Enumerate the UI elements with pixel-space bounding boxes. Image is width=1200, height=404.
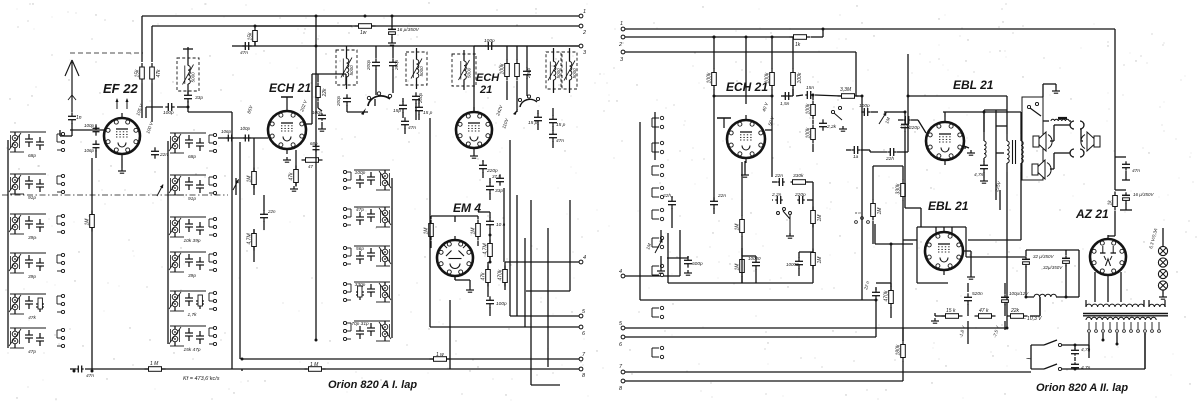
svg-text:91p: 91p	[188, 196, 196, 202]
svg-text:39p: 39p	[28, 235, 36, 241]
svg-text:5000: 5000	[419, 66, 424, 77]
resistor 1w	[355, 24, 376, 36]
mw coil unit 2	[343, 207, 391, 227]
svg-text:1 M: 1 M	[310, 362, 319, 368]
speaker 1	[1033, 132, 1052, 151]
switch contact 7	[652, 264, 664, 276]
capacitor 200p t2	[343, 94, 351, 105]
wire to terminal 4	[505, 261, 579, 263]
wire 32u wires	[1026, 250, 1079, 297]
terminal 7 (right page)	[619, 364, 625, 374]
svg-text:1k: 1k	[795, 42, 801, 48]
svg-text:5000: 5000	[572, 68, 577, 79]
terminal 3 (right page)	[620, 50, 625, 63]
capacitor 47n osc2	[549, 130, 557, 141]
svg-text:100p: 100p	[84, 123, 95, 128]
mains switch a	[1031, 340, 1062, 347]
mains switch b	[1031, 364, 1062, 371]
capacitor 15n a	[805, 91, 812, 99]
resistor 4,7M	[483, 240, 493, 261]
terminal 8 (right page)	[619, 379, 625, 392]
svg-text:2,2k: 2,2k	[826, 124, 837, 130]
wire plate ECH1	[306, 74, 346, 124]
svg-text:33p: 33p	[495, 188, 503, 194]
wire ech2 bottom	[483, 160, 490, 200]
wire bottom agc	[91, 342, 93, 369]
capacitor 2,2n e	[775, 196, 782, 204]
capacitor 100p grid	[165, 103, 174, 111]
transformer taps	[1088, 322, 1161, 332]
wire bottom rail 2	[242, 369, 452, 371]
wire top bus 1 (left page)	[142, 15, 579, 17]
switch contact 8	[652, 306, 664, 318]
svg-text:100p: 100p	[355, 170, 366, 176]
wire top bus 2 (left page)	[152, 25, 579, 27]
capacitor 100p col1	[93, 124, 100, 135]
ground ebl bottom	[967, 274, 975, 279]
wire 22k scr	[318, 74, 322, 126]
junction em4	[489, 234, 492, 264]
wire grid line ech1	[218, 137, 268, 139]
ground lamps	[1159, 294, 1167, 299]
wire drop bus2 x152	[151, 26, 153, 62]
resistor 15k k	[942, 314, 963, 319]
svg-text:15p: 15p	[393, 108, 401, 114]
osc2 switch contacts	[513, 95, 540, 115]
svg-text:1M: 1M	[817, 214, 823, 222]
terminal 3 (left page)	[579, 44, 587, 56]
svg-text:39p: 39p	[28, 274, 36, 280]
ground ebl top cathode	[967, 150, 975, 155]
ground 100p scr	[318, 126, 326, 131]
svg-text:4,7M: 4,7M	[247, 233, 253, 245]
wire ebl2 plate loop	[968, 172, 1021, 240]
ground ech2	[470, 153, 478, 158]
wire ebl bottom gnd	[963, 251, 971, 274]
svg-text:47n: 47n	[86, 373, 94, 379]
wire tone net	[871, 112, 905, 138]
resistor 100k ech right c2	[791, 69, 803, 90]
aerial coil unit 5	[9, 294, 65, 321]
wire audio bus b	[640, 299, 876, 301]
wire top bus2 right	[625, 36, 793, 38]
band switch rotary	[361, 92, 392, 115]
wire to terminal 5	[510, 315, 579, 317]
wire audio bus drops	[640, 96, 921, 300]
resistor 470k	[884, 287, 894, 308]
wire em4 top bar	[431, 216, 478, 248]
wire primary drops	[1089, 333, 1145, 369]
wire 232 col	[231, 133, 233, 369]
ground 16μ	[388, 40, 396, 45]
wire ebl2 grid	[903, 239, 917, 241]
terminal 2 (left page)	[579, 24, 586, 36]
capacitor 100μ/12V	[1001, 294, 1009, 305]
wire EF22 cathode	[121, 159, 123, 168]
resistor 4,7M ech1	[247, 230, 257, 251]
svg-text:47 k: 47 k	[979, 308, 989, 314]
osc coil unit 2	[169, 175, 217, 202]
wire az21 cathode	[1107, 279, 1109, 302]
svg-text:4,7M: 4,7M	[483, 243, 489, 255]
svg-text:470k: 470k	[884, 290, 890, 301]
svg-text:70p 31p: 70p 31p	[351, 321, 369, 327]
junction T1	[187, 106, 190, 109]
svg-text:22n: 22n	[717, 193, 726, 199]
capacitor 1a	[851, 146, 860, 154]
svg-text:4,7n: 4,7n	[974, 172, 984, 178]
junction bottom	[73, 339, 318, 373]
wire switch bank spine	[623, 112, 680, 276]
IF transformer T4a	[546, 48, 561, 93]
svg-text:15 k: 15 k	[946, 308, 956, 314]
aerial coil unit 4	[9, 253, 65, 280]
capacitor 33p ech2	[486, 182, 494, 193]
terminal 4 (right page)	[619, 269, 625, 278]
capacitor 220p tone	[901, 120, 909, 131]
svg-text:1M: 1M	[877, 207, 883, 215]
wire 100k c2 drop	[792, 37, 794, 96]
svg-text:5000: 5000	[556, 68, 561, 79]
wire coupling rows	[772, 182, 813, 210]
svg-text:47p: 47p	[28, 349, 36, 355]
IF transformer T2	[336, 46, 357, 89]
enclosure EBL bottom	[917, 227, 1026, 283]
junction 1k	[713, 28, 825, 39]
capacitor 220p in	[903, 116, 910, 124]
resistor 1M bottom	[145, 367, 166, 372]
capacitor 100p ech1	[243, 135, 250, 142]
wire -7,5 drops	[968, 321, 1005, 344]
capacitor 16μ/350V b	[1122, 192, 1130, 203]
capacitor 22n d	[777, 178, 784, 186]
wire ph c	[873, 166, 903, 244]
capacitor 15p d	[549, 115, 557, 126]
wire gb	[812, 95, 814, 152]
wire 330k v	[902, 166, 904, 341]
svg-text:600p: 600p	[692, 261, 703, 267]
wire mid verticals	[316, 46, 510, 340]
capacitor 520n	[964, 293, 972, 304]
switch contact 2	[652, 141, 664, 153]
wire screens down	[142, 83, 152, 122]
svg-text:520n: 520n	[972, 291, 983, 297]
svg-text:39p: 39p	[188, 273, 196, 279]
wire EBL top screen	[908, 96, 1007, 134]
svg-text:330k: 330k	[793, 173, 804, 179]
resistor 1k top	[790, 35, 811, 48]
ground ECH21-1	[283, 157, 291, 162]
wire 16u down	[1120, 203, 1132, 210]
svg-text:Orion 820 A II. lap: Orion 820 A II. lap	[1036, 382, 1128, 394]
wire top bus3 right	[625, 52, 856, 96]
svg-text:5000: 5000	[191, 72, 196, 83]
svg-text:Kf = 473,6 kc/s: Kf = 473,6 kc/s	[183, 376, 220, 382]
wire 1M ech1	[253, 138, 255, 195]
wire b+ stub 47n	[1115, 152, 1126, 190]
resistor 1M bottom2	[305, 367, 326, 372]
wire drop bus1 x142	[141, 16, 143, 62]
svg-text:200p: 200p	[366, 59, 371, 71]
svg-text:ECH: ECH	[476, 72, 500, 84]
svg-text:ECH 21: ECH 21	[269, 81, 311, 95]
wire audio bus a	[668, 282, 813, 284]
svg-text:220p: 220p	[899, 124, 911, 129]
switch contact 9	[652, 346, 664, 358]
dial lamp 4	[1158, 281, 1167, 290]
capacitor 2,2n g	[819, 119, 827, 130]
capacitor 37p	[496, 174, 504, 185]
wire 100k drop	[713, 37, 715, 198]
resistor 180k	[896, 341, 906, 362]
pickup contacts	[855, 210, 870, 223]
mains dots	[1074, 344, 1077, 371]
svg-text:1: 1	[583, 9, 586, 15]
wire top bus1 right	[625, 29, 1115, 152]
dashed AGC line	[2, 194, 228, 196]
svg-text:4: 4	[583, 255, 586, 261]
speaker frame box	[1022, 97, 1043, 180]
svg-text:470k: 470k	[498, 269, 504, 280]
resistor 1M ph c	[871, 200, 883, 221]
terminal 1 (right page)	[620, 21, 625, 31]
capacitor 4,7n m1	[1071, 348, 1079, 355]
capacitor 22n ech1	[260, 210, 268, 221]
resistor osc2b	[515, 60, 520, 81]
svg-text:1M: 1M	[247, 175, 253, 183]
capacitor 22n k2	[872, 288, 880, 299]
svg-text:ECH 21: ECH 21	[726, 80, 768, 94]
svg-text:1M: 1M	[424, 227, 430, 235]
resistor 100k osc2	[500, 60, 510, 81]
resistor 1M em4 a	[424, 220, 434, 241]
tube ECH 21 second	[456, 107, 492, 153]
resistor 470k em4	[498, 266, 508, 287]
dashed AVC line top	[70, 52, 143, 54]
svg-text:1M: 1M	[735, 223, 741, 231]
resistor 47k em4	[481, 266, 491, 287]
wire screen bus	[907, 54, 909, 152]
svg-text:2: 2	[618, 42, 622, 48]
svg-text:1,7k: 1,7k	[187, 312, 197, 318]
tube EBL 21 bottom	[925, 227, 963, 275]
svg-text:200p: 200p	[394, 59, 399, 71]
power transformer	[1083, 300, 1168, 320]
wire col1 to EF22	[70, 126, 104, 158]
wire osc2 mesh	[538, 108, 553, 148]
terminal 5 (right page)	[619, 321, 625, 330]
coupling switch contacts	[777, 208, 792, 234]
svg-text:47n: 47n	[240, 50, 248, 56]
capacitor 10000 b	[795, 257, 803, 268]
svg-text:220p: 220p	[794, 192, 806, 198]
tube AZ 21	[1090, 235, 1126, 279]
switch contact 6	[652, 236, 664, 248]
svg-text:100k: 100k	[765, 72, 771, 83]
speaker 2	[1032, 160, 1051, 179]
svg-text:10k 39p: 10k 39p	[183, 238, 200, 244]
wire 470k	[876, 283, 891, 337]
capacitor 106p col1	[93, 140, 100, 151]
wire col1 feed	[59, 130, 61, 136]
svg-text:22n: 22n	[267, 209, 276, 214]
tube ECH 21 right	[727, 115, 765, 163]
svg-text:68p: 68p	[310, 141, 318, 146]
wire mains	[1062, 333, 1145, 369]
svg-text:4: 4	[619, 269, 622, 275]
svg-text:47k: 47k	[156, 69, 162, 78]
svg-text:10000: 10000	[748, 256, 761, 261]
resistor 100k gb b	[806, 125, 816, 144]
wire choke net	[1040, 297, 1079, 315]
capacitor 106p ech1	[226, 135, 233, 142]
wire 22n ech1	[263, 195, 265, 230]
capacitor 47n b+	[1122, 161, 1130, 170]
tone switch contacts	[831, 106, 842, 120]
resistor 1k b+	[1108, 192, 1118, 211]
junction grid box	[713, 36, 774, 98]
svg-text:68p: 68p	[188, 154, 196, 160]
svg-text:100k: 100k	[806, 103, 812, 114]
switch contact 1	[652, 116, 664, 128]
svg-text:330k: 330k	[896, 183, 902, 194]
resistor 15k screen	[135, 63, 145, 83]
capacitor 22n a	[668, 197, 676, 208]
svg-text:33p: 33p	[195, 95, 203, 101]
junction right misc	[861, 95, 1068, 330]
wire 47M ech1	[253, 229, 255, 262]
switch contact 5	[652, 208, 664, 220]
capacitor 68p ech1	[313, 144, 320, 151]
capacitor 1n antenna	[68, 112, 82, 123]
capacitor 1,5n a	[783, 92, 790, 100]
capacitor 10n em4	[486, 217, 494, 228]
IF transformer T4b	[562, 48, 577, 93]
wire terminal6 bus	[625, 336, 876, 338]
resistor 1w bottom	[430, 357, 451, 362]
svg-text:EBL 21: EBL 21	[953, 78, 994, 92]
coil speaker line	[1051, 118, 1069, 121]
wire cathode k	[964, 146, 984, 178]
wire terminal5 bus	[625, 327, 1007, 329]
svg-text:100p: 100p	[163, 110, 174, 116]
svg-text:47p: 47p	[356, 207, 364, 213]
svg-text:1 M: 1 M	[150, 361, 159, 367]
junction gb	[812, 94, 815, 97]
svg-text:15 p: 15 p	[556, 122, 566, 128]
capacitor 15p b	[415, 103, 423, 114]
wire col2 left rail	[167, 141, 169, 344]
dial lamp 2	[1158, 258, 1167, 267]
wire grid box top	[714, 95, 772, 97]
junction dots top bus	[254, 15, 394, 48]
capacitor 200p t3	[412, 92, 420, 103]
svg-text:106p: 106p	[84, 148, 95, 153]
capacitor 200p osc2	[523, 67, 531, 78]
wire to terminal 7	[242, 358, 579, 360]
speaker 3	[1081, 132, 1100, 151]
svg-text:EM 4: EM 4	[453, 201, 481, 215]
resistor 47k screen	[150, 63, 162, 83]
wire em4 net	[455, 212, 505, 316]
svg-text:47n: 47n	[1132, 168, 1140, 174]
osc coil unit 5	[169, 291, 217, 318]
resistor 47 ech1	[302, 158, 323, 163]
capacitor 15p c	[534, 113, 542, 124]
capacitor 200p top	[485, 42, 494, 50]
ground pot	[657, 268, 665, 273]
svg-text:32μ/350V: 32μ/350V	[1043, 265, 1063, 270]
mw coil unit 1	[343, 170, 391, 190]
wire 47n down	[1122, 171, 1130, 180]
wire pot	[660, 230, 662, 268]
capacitor 22n c	[887, 148, 896, 156]
IF transformer T1	[177, 54, 199, 95]
resistor 1M ech1	[247, 168, 257, 189]
volume potentiometer	[655, 238, 664, 253]
transformer dots	[1102, 339, 1119, 346]
junction phase mid	[890, 243, 893, 246]
wire col1 left rail	[7, 140, 9, 348]
capacitor 10000 a	[752, 258, 760, 269]
aerial coil unit 2	[9, 174, 65, 201]
ground 47k ech1	[290, 186, 298, 191]
terminal 4 (left page)	[579, 255, 586, 264]
resistor 1M v b	[811, 249, 823, 270]
wire speaker net	[996, 84, 1083, 328]
resistor 3,3M	[838, 94, 859, 99]
capacitor 220p h	[797, 196, 804, 204]
grid cap T ech1	[281, 97, 293, 106]
wire eb connections	[450, 188, 525, 369]
ground cathode row	[931, 318, 939, 323]
terminal 1 (left page)	[579, 9, 586, 18]
aerial coil unit 6	[9, 328, 65, 355]
IF transformer T4	[452, 50, 476, 90]
capacitor 100p em4	[486, 296, 494, 307]
svg-text:10000: 10000	[786, 262, 799, 267]
terminal 5 (left page)	[579, 309, 586, 318]
capacitor 200p mid b	[389, 58, 397, 69]
osc coil unit 3	[169, 217, 217, 244]
wire EBL top plate	[943, 112, 1021, 134]
wire 22n drops	[672, 196, 714, 228]
svg-text:1n: 1n	[76, 115, 82, 121]
capacitor 47n input	[242, 42, 251, 50]
wire osc mesh	[347, 98, 419, 134]
mw coil unit 5	[343, 321, 391, 341]
resistor 1M em4 b	[471, 220, 481, 241]
wire lamp chain	[1162, 228, 1164, 294]
wire drop bus1 x316	[315, 16, 317, 46]
resistor 1M agc	[85, 211, 95, 232]
wire col3 right rail	[391, 178, 393, 338]
svg-text:1w: 1w	[360, 30, 367, 36]
wire bottom rail 1	[85, 368, 242, 370]
svg-text:1a: 1a	[853, 154, 859, 160]
svg-text:1M: 1M	[471, 227, 477, 235]
speaker switch	[1027, 102, 1041, 116]
antenna	[65, 60, 79, 112]
wire osc2 drops	[507, 46, 527, 112]
wire ech right cathode	[744, 161, 746, 172]
capacitor 100p tone	[861, 108, 870, 116]
wire terminal8 bus	[625, 380, 903, 382]
svg-text:1M: 1M	[85, 218, 91, 226]
tube ECH 21 first	[268, 106, 306, 154]
wire 1M column	[91, 158, 93, 342]
wire b+ to az21	[1108, 211, 1115, 236]
